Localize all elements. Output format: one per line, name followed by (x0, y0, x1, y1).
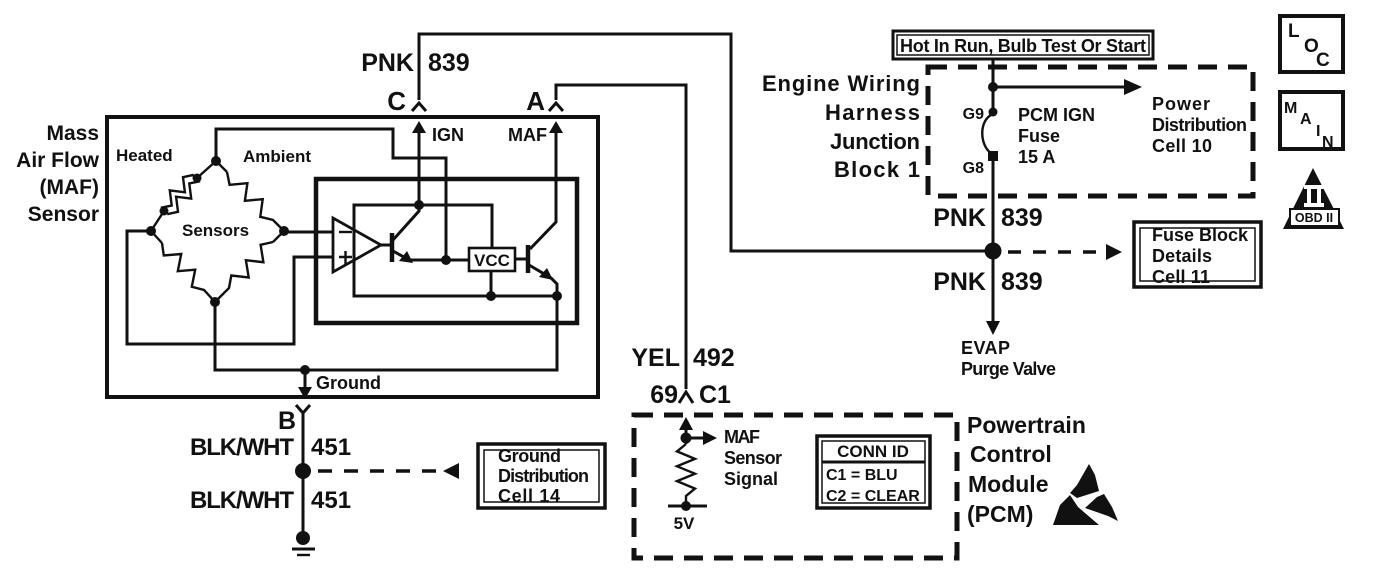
svg-text:Cell 11: Cell 11 (1152, 267, 1210, 287)
svg-text:OBD II: OBD II (1295, 211, 1333, 225)
svg-text:839: 839 (1001, 268, 1043, 296)
svg-text:M: M (1284, 100, 1297, 117)
svg-text:Control: Control (970, 441, 1052, 467)
svg-text:B: B (278, 407, 296, 435)
svg-text:Module: Module (968, 471, 1049, 497)
svg-text:Signal: Signal (724, 469, 778, 489)
svg-text:Distribution: Distribution (1152, 115, 1247, 135)
svg-text:Ground: Ground (498, 446, 561, 466)
svg-text:CONN ID: CONN ID (837, 442, 909, 461)
svg-text:Sensor: Sensor (724, 448, 782, 468)
svg-text:Mass: Mass (46, 122, 99, 145)
svg-text:Junction: Junction (830, 129, 920, 154)
svg-text:Cell 14: Cell 14 (498, 486, 560, 506)
svg-text:A: A (1300, 111, 1312, 128)
svg-text:451: 451 (311, 434, 351, 461)
svg-text:Fuse Block: Fuse Block (1152, 225, 1249, 245)
svg-text:EVAP: EVAP (961, 338, 1010, 358)
svg-text:Distribution: Distribution (498, 466, 589, 486)
svg-text:MAF: MAF (508, 125, 547, 145)
svg-text:Harness: Harness (825, 100, 920, 125)
svg-text:Purge Valve: Purge Valve (961, 359, 1056, 379)
svg-text:Details: Details (1152, 246, 1212, 266)
svg-text:Heated: Heated (116, 146, 173, 165)
svg-text:839: 839 (428, 49, 470, 77)
svg-text:C: C (1316, 50, 1330, 71)
svg-text:VCC: VCC (474, 251, 510, 270)
svg-text:C: C (387, 86, 406, 116)
svg-text:BLK/WHT: BLK/WHT (190, 434, 294, 461)
svg-text:Sensor: Sensor (28, 203, 99, 226)
svg-text:Engine Wiring: Engine Wiring (762, 71, 920, 96)
svg-text:C2 = CLEAR: C2 = CLEAR (826, 488, 920, 505)
svg-text:YEL: YEL (631, 344, 680, 372)
svg-text:IGN: IGN (432, 125, 464, 145)
svg-text:Hot In Run, Bulb Test Or Start: Hot In Run, Bulb Test Or Start (900, 36, 1146, 56)
svg-text:C1: C1 (699, 381, 731, 409)
svg-text:PNK: PNK (933, 204, 986, 232)
svg-text:69: 69 (650, 381, 678, 409)
svg-text:5V: 5V (674, 514, 695, 533)
svg-text:(MAF): (MAF) (40, 176, 99, 199)
svg-text:MAF: MAF (724, 427, 760, 447)
svg-text:PNK: PNK (361, 49, 414, 77)
svg-text:492: 492 (693, 344, 735, 372)
svg-text:Ambient: Ambient (243, 147, 311, 166)
svg-text:G9: G9 (963, 106, 984, 123)
svg-text:L: L (1288, 21, 1300, 42)
svg-text:PNK: PNK (933, 268, 986, 296)
svg-text:15 A: 15 A (1018, 147, 1055, 167)
svg-text:451: 451 (311, 487, 351, 514)
svg-text:BLK/WHT: BLK/WHT (190, 487, 294, 514)
svg-text:C1 = BLU: C1 = BLU (826, 467, 898, 484)
svg-text:Sensors: Sensors (182, 221, 249, 240)
svg-text:N: N (1322, 134, 1334, 151)
svg-text:(PCM): (PCM) (967, 501, 1033, 527)
svg-text:839: 839 (1001, 204, 1043, 232)
svg-text:Powertrain: Powertrain (967, 412, 1086, 438)
svg-text:G8: G8 (963, 160, 984, 177)
svg-text:A: A (526, 86, 545, 116)
svg-text:Ground: Ground (316, 373, 381, 393)
svg-text:Air Flow: Air Flow (16, 149, 99, 172)
svg-text:PCM IGN: PCM IGN (1018, 105, 1095, 125)
svg-text:Block 1: Block 1 (834, 157, 920, 182)
svg-text:Cell 10: Cell 10 (1152, 136, 1212, 156)
svg-text:I: I (1316, 123, 1320, 140)
svg-text:Fuse: Fuse (1018, 126, 1060, 146)
svg-text:Power: Power (1152, 94, 1210, 114)
